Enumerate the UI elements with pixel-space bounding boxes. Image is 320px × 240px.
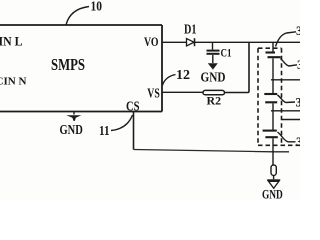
svg-text:VO: VO <box>144 34 159 49</box>
SMPS box bottom edge <box>0 111 162 113</box>
svg-text:12: 12 <box>176 68 190 83</box>
ground (C1) arrow <box>208 63 218 69</box>
LED 31 <box>266 51 276 53</box>
wire VO into LED string <box>272 42 274 51</box>
wire LED2-LED3 <box>272 103 274 130</box>
SMPS box right edge <box>161 25 163 112</box>
wire CS horizontal <box>134 150 290 152</box>
dashed LED module box left edge <box>257 48 259 145</box>
svg-text:SMPS: SMPS <box>51 55 85 74</box>
svg-text:VS: VS <box>147 87 160 102</box>
diode D1 <box>187 39 195 46</box>
SMPS box U10 top edge <box>0 24 162 26</box>
capacitor C1 <box>212 42 214 49</box>
leader to 3x (top) <box>276 32 297 47</box>
ground (SMPS) symbol <box>73 112 75 115</box>
leader to 3x (LED2) <box>277 95 295 103</box>
svg-text:GND: GND <box>262 188 283 200</box>
leader to 10 <box>66 7 89 26</box>
svg-text:C1: C1 <box>221 45 232 59</box>
leader to 11 <box>111 115 133 131</box>
resistor R2 <box>203 90 225 94</box>
svg-text:10: 10 <box>91 0 103 15</box>
wire after D1 <box>195 41 301 43</box>
svg-text:GND: GND <box>60 123 83 138</box>
cross wire middle <box>271 110 300 112</box>
LED 33 <box>263 130 277 132</box>
LED 32 <box>264 93 277 95</box>
sense resistor <box>271 165 276 175</box>
leader to 3x (LED3) <box>278 132 296 142</box>
svg-text:GND: GND <box>201 70 226 85</box>
svg-text:3: 3 <box>297 58 300 72</box>
wire LED1-LED2 <box>272 58 274 93</box>
svg-text:IN L: IN L <box>0 35 23 49</box>
ground (bottom) <box>267 179 280 181</box>
cross wire lower <box>282 119 301 121</box>
svg-text:3: 3 <box>296 135 300 149</box>
wire C1 to ground <box>212 55 214 63</box>
dashed LED module box top edge <box>258 47 282 49</box>
wire LED3 down <box>272 138 274 165</box>
svg-text:D1: D1 <box>184 23 197 38</box>
dashed LED module box bottom edge <box>258 144 300 146</box>
wire to ground <box>273 175 275 179</box>
leader to 3x (LED1) <box>281 59 298 67</box>
cross wire top <box>271 79 300 81</box>
svg-text:3: 3 <box>296 95 301 109</box>
wire R2 to VO <box>225 42 250 92</box>
leader to 12 <box>163 75 176 86</box>
svg-text:R2: R2 <box>207 93 222 107</box>
svg-text:3: 3 <box>296 24 300 38</box>
svg-text:CIN N: CIN N <box>0 76 27 88</box>
dashed LED module box right edge <box>281 48 283 145</box>
wire CS down <box>133 112 135 150</box>
wire VS <box>162 91 203 93</box>
svg-text:11: 11 <box>99 124 110 139</box>
wire VO <box>162 41 186 43</box>
